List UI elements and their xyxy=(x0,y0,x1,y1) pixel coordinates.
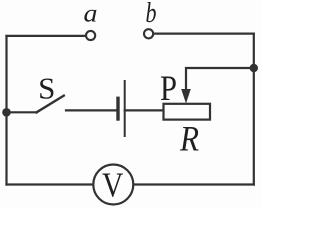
svg-text:a: a xyxy=(84,0,98,27)
wire battery to rheostat xyxy=(125,109,163,111)
svg-text:R: R xyxy=(179,119,199,159)
wire switch contact to battery xyxy=(66,109,117,111)
wire junction to slider xyxy=(186,68,254,91)
battery short plate (negative) xyxy=(116,98,119,119)
terminal a xyxy=(86,31,95,40)
svg-text:S: S xyxy=(38,70,55,105)
junction dot right xyxy=(250,64,258,72)
wire left vertical xyxy=(5,36,7,185)
voltmeter V body xyxy=(93,165,133,205)
switch S blade xyxy=(37,96,64,113)
battery long plate (positive) xyxy=(124,81,126,136)
svg-text:P: P xyxy=(160,68,177,108)
rheostat R body xyxy=(164,104,211,120)
wire switch to left junction xyxy=(7,111,37,113)
wire top-left horizontal xyxy=(7,35,86,37)
svg-text:V: V xyxy=(102,166,123,205)
rheostat slider arrow P xyxy=(181,89,191,104)
wire bottom horizontal xyxy=(7,183,254,185)
wire top-right horizontal xyxy=(153,32,253,34)
terminal b xyxy=(144,29,153,38)
wire right vertical xyxy=(253,34,255,185)
junction dot left xyxy=(2,108,11,117)
svg-text:b: b xyxy=(146,0,157,29)
